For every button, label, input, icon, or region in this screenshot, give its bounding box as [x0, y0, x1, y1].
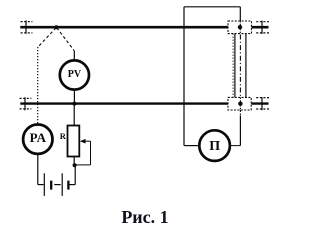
withdrawable unit centerline (dash-dot): [239, 35, 241, 98]
svg-text:PV: PV: [68, 69, 82, 80]
battery GB cell 2 long plate: [61, 173, 63, 196]
svg-text:R: R: [60, 131, 67, 141]
wire loop top horizontal: [184, 6, 240, 8]
wire ammeter PA bottom lead: [37, 154, 39, 185]
battery GB cell 1 short plate: [50, 181, 52, 190]
wire rheostat bottom lead: [73, 157, 75, 165]
withdrawable unit left side: [234, 34, 236, 98]
plug contact X1 (top withdrawable contact box): [228, 21, 252, 34]
device P (drive/relay): [199, 130, 230, 161]
node A (junction dot on busbar W1): [54, 25, 58, 29]
wire battery left link to ammeter PA: [38, 184, 44, 186]
battery GB cell 2 short plate: [67, 181, 69, 190]
pin stub dashed below X2: [239, 105, 241, 110]
wire loop left vertical down to device P: [183, 7, 185, 146]
busbar W2 (middle) left segment: [20, 102, 228, 104]
busbar W1 (top) left segment: [20, 26, 228, 29]
wire voltmeter PV top lead: [73, 51, 75, 60]
node B (junction dot on busbar W2): [72, 102, 76, 106]
wire dotted vertical to ammeter PA: [37, 47, 39, 124]
ammeter PA: [23, 125, 52, 154]
wire wiper to return: [85, 140, 91, 142]
wire wiper return vertical: [90, 141, 92, 165]
withdrawable unit guide dotted line: [232, 34, 234, 98]
svg-text:PA: PA: [30, 130, 47, 145]
wire X2 down to device P right lead: [239, 110, 241, 116]
pin stub dashed inside X1: [239, 21, 241, 26]
wire from node B down to rheostat R: [73, 104, 75, 126]
wire dashed from node A to left dotted branch: [38, 28, 56, 47]
pin stub dashed inside X2: [239, 97, 241, 102]
plug contact X2 (bottom withdrawable contact box): [228, 97, 251, 110]
busbar W2 left end marker (section symbol): [20, 97, 32, 110]
wire dashed from node A to voltmeter branch: [57, 28, 75, 51]
rheostat wiper arrow: [80, 139, 86, 144]
wire node C down to battery positive: [74, 165, 76, 184]
wire link between battery cells: [54, 184, 60, 186]
busbar W2 right stub: [251, 102, 268, 104]
busbar W1 right end marker (section symbol): [256, 21, 270, 34]
busbar W2 right end marker (section symbol): [256, 97, 270, 110]
wire device P left lead horizontal: [184, 145, 199, 147]
node C (junction dot below rheostat): [73, 163, 77, 167]
wire device P right lead horizontal: [230, 145, 240, 147]
node X2 contact dot: [238, 102, 242, 106]
wire battery right link: [70, 184, 76, 186]
withdrawable unit right side: [245, 34, 247, 98]
battery GB cell 1 long plate: [43, 173, 45, 196]
svg-text:П: П: [209, 139, 220, 154]
rheostat R body: [68, 126, 80, 157]
node X1 contact dot: [238, 25, 242, 29]
busbar W1 left end marker (section symbol): [21, 20, 33, 33]
wire wiper return horizontal to node C: [75, 164, 91, 166]
busbar W1 right stub: [252, 26, 269, 29]
voltmeter PV: [60, 60, 89, 89]
wire PV bottom lead to busbar W2: [73, 90, 75, 104]
pin stub dashed below X1 dot: [239, 29, 241, 34]
wire loop right vertical to plug contact X1: [239, 7, 241, 21]
caption Рис. 1: [0, 207, 290, 228]
